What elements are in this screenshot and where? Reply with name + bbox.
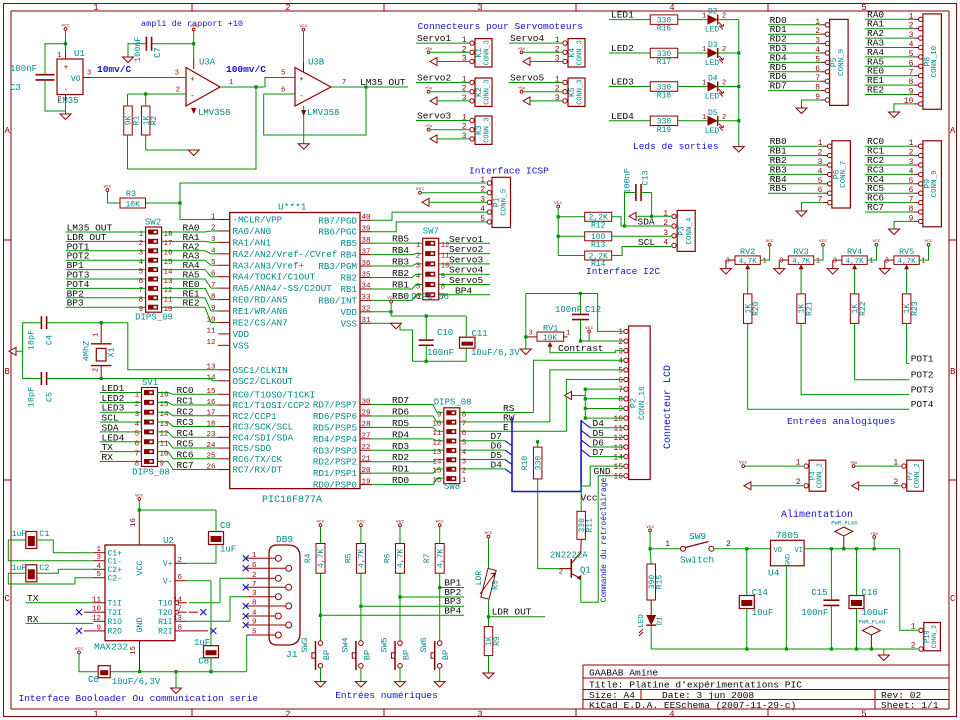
svg-text:Connecteurs pour Servomoteurs: Connecteurs pour Servomoteurs	[418, 21, 583, 32]
wire vcc to C9	[139, 509, 216, 511]
wire VDD pin32 to C10/C11	[372, 311, 392, 313]
svg-text:1: 1	[909, 12, 914, 21]
svg-text:8: 8	[211, 293, 216, 301]
wire MCLR node down to chip pin1	[179, 203, 181, 220]
wire vcc to R3	[108, 191, 121, 203]
switch SW6 push button	[419, 637, 451, 670]
ground arrow (P3 pin1)	[629, 212, 636, 220]
svg-text:B: B	[4, 367, 10, 377]
svg-text:CONN_2: CONN_2	[914, 463, 922, 488]
wire R2 bottom to ground	[146, 135, 194, 150]
net labels RB0-RB5 and wires to P6	[768, 136, 823, 194]
svg-text:10K: 10K	[125, 201, 140, 210]
svg-text:34: 34	[361, 283, 371, 291]
svg-text:4,7K: 4,7K	[739, 258, 758, 266]
svg-text:C2: C2	[39, 563, 49, 573]
svg-text:13: 13	[613, 444, 623, 453]
wires P2 pins 7-10 grounded	[572, 388, 624, 420]
resistor R5 4,7K	[356, 544, 365, 574]
svg-text:5: 5	[861, 710, 866, 720]
svg-text:BP: BP	[362, 650, 372, 660]
svg-text:32: 32	[361, 306, 370, 314]
svg-text:-: -	[190, 93, 195, 101]
svg-text:C3: C3	[10, 83, 21, 93]
wire OSC1 net: C4 - X1 top - chip pin13	[23, 323, 42, 379]
wires P2 pins 4,5,6 from RS RW E	[533, 360, 623, 412]
svg-text:SCL: SCL	[638, 237, 655, 248]
power flag PWR_FLAG (top)	[831, 520, 857, 549]
svg-text:9: 9	[815, 93, 820, 102]
svg-text:R1: R1	[133, 116, 142, 126]
wire U3B output to LM35 OUT	[331, 86, 408, 88]
switch SW5 push button	[380, 637, 412, 670]
svg-text:30: 30	[361, 398, 371, 406]
photoresistor R8 LDR	[475, 568, 501, 599]
svg-text:LDR OUT: LDR OUT	[492, 607, 532, 618]
svg-text:POT2: POT2	[911, 370, 934, 381]
svg-text:RB5: RB5	[770, 183, 787, 194]
wire R17 to diode D3	[678, 52, 708, 54]
svg-text:23: 23	[206, 431, 216, 439]
svg-text:C7: C7	[153, 47, 163, 58]
svg-text:4: 4	[909, 41, 914, 50]
svg-text:C4: C4	[45, 335, 55, 345]
ground arrow to K4 pin3	[523, 58, 530, 66]
net labels BP1-BP4 and wires	[321, 578, 465, 617]
svg-text:9: 9	[211, 305, 216, 313]
wire P6 pin7 to ground	[802, 203, 823, 211]
bottom rail (power)	[651, 648, 884, 650]
svg-text:17: 17	[206, 410, 215, 418]
svg-text:2: 2	[285, 3, 290, 13]
dip switch SW8 DIPS_08 (mirrored)	[432, 398, 471, 493]
ground arrow to K5 pin3	[523, 97, 530, 105]
svg-text:1: 1	[869, 258, 873, 266]
svg-text:C11: C11	[472, 329, 488, 339]
svg-text:LDR: LDR	[475, 571, 484, 586]
wire P10 pin2 to gnd rail	[884, 648, 918, 650]
svg-text:DIPS_09: DIPS_09	[135, 313, 173, 323]
svg-text:RC0/T1OSO/T1CKI: RC0/T1OSO/T1CKI	[233, 389, 316, 400]
connector P4 CONN_2	[796, 459, 826, 492]
chip left pins 13,14 OSC	[206, 364, 293, 387]
svg-text:RA2/AN2/Vref-/CVref: RA2/AN2/Vref-/CVref	[233, 249, 338, 260]
svg-text:6: 6	[815, 65, 820, 74]
ic U2 MAX232 body	[94, 536, 175, 653]
switch SW3 push button	[300, 637, 332, 670]
svg-text:100nF: 100nF	[10, 64, 37, 74]
svg-text:5: 5	[909, 50, 914, 59]
svg-text:R10: R10	[521, 456, 530, 471]
ground arrow (P7 pin2)	[852, 482, 859, 490]
svg-text:RD4/PSP4: RD4/PSP4	[313, 434, 358, 445]
svg-text:Interface Booloader Ou communi: Interface Booloader Ou communication ser…	[19, 693, 259, 704]
svg-text:PWR_FLAG: PWR_FLAG	[831, 520, 857, 527]
capacitor C5	[27, 372, 55, 407]
svg-text:7: 7	[818, 196, 823, 205]
svg-text:+5v: +5v	[870, 533, 878, 537]
wire U1 out to U3A +	[91, 77, 186, 79]
wire Q1 emitter down	[580, 579, 582, 603]
svg-text:R13: R13	[591, 241, 606, 250]
wire R7 to SW6 and BP net	[439, 573, 441, 641]
svg-text:1: 1	[566, 330, 570, 338]
svg-text:RB0/INT: RB0/INT	[318, 295, 357, 306]
svg-text:2: 2	[555, 85, 560, 94]
wire diode D5 to common bus	[718, 120, 739, 122]
resistor R14 2,2K	[585, 251, 612, 260]
svg-text:RB3/PGM: RB3/PGM	[318, 261, 357, 272]
svg-text:40: 40	[361, 214, 371, 222]
svg-text:RC2/CCP1: RC2/CCP1	[233, 411, 278, 422]
svg-text:3: 3	[663, 229, 668, 238]
svg-text:RD3/PSP3: RD3/PSP3	[313, 445, 357, 456]
svg-text:31: 31	[361, 317, 371, 325]
svg-text:19: 19	[361, 478, 370, 486]
svg-text:1: 1	[702, 46, 706, 54]
svg-text:4: 4	[480, 205, 485, 214]
svg-text:1: 1	[618, 328, 623, 337]
svg-text:CONN_3: CONN_3	[577, 40, 585, 65]
svg-text:RB6/PGC: RB6/PGC	[318, 227, 357, 238]
resistor R2	[141, 106, 150, 135]
svg-text:VO: VO	[71, 75, 81, 84]
svg-text:21: 21	[361, 456, 371, 464]
svg-text:RD1/PSP1: RD1/PSP1	[313, 468, 358, 479]
wires SW8 right rows 4-7 to D7-D4 labels (blue bus entries)	[460, 431, 512, 474]
ground (P5)	[796, 108, 807, 114]
capacitor C6 (polarized)	[88, 666, 161, 687]
svg-text:3: 3	[555, 55, 560, 64]
LED diode D3	[705, 41, 724, 68]
svg-text:+5v: +5v	[425, 126, 433, 130]
wire LED common bus down to ground	[738, 20, 740, 147]
svg-text:SW3: SW3	[300, 637, 310, 652]
wire R9 to ground	[488, 656, 490, 673]
chip left pins 15-26 RC port	[206, 388, 315, 475]
svg-text:3: 3	[462, 94, 467, 103]
connector P10 CONN_2	[911, 623, 941, 652]
ground (P6)	[796, 211, 807, 217]
svg-text:1: 1	[462, 114, 467, 123]
svg-text:POT4: POT4	[911, 399, 934, 410]
svg-text:3: 3	[252, 590, 257, 598]
svg-text:RC7/RX/DT: RC7/RX/DT	[233, 465, 283, 476]
svg-text:5: 5	[815, 55, 820, 64]
chip left pins 1-12	[206, 213, 337, 351]
wire DB9 pin5 to gnd rail	[246, 635, 248, 672]
svg-text:RD7: RD7	[770, 81, 787, 92]
svg-text:Connecteur LCD: Connecteur LCD	[663, 365, 674, 449]
svg-text:CONN_9: CONN_9	[931, 170, 939, 197]
svg-text:25: 25	[206, 453, 216, 461]
svg-text:CONN_3: CONN_3	[484, 118, 492, 143]
svg-text:R16: R16	[657, 25, 672, 34]
svg-text:2: 2	[285, 710, 290, 720]
capacitor C4	[27, 316, 55, 350]
wires C10/C11 bottoms to gnd	[425, 345, 427, 361]
svg-text:LED: LED	[638, 614, 646, 628]
svg-text:+5v: +5v	[850, 462, 858, 466]
svg-text:1: 1	[815, 18, 820, 27]
svg-text:100nF: 100nF	[133, 36, 143, 62]
wire OSC2 net: C5 - X1 bottom - chip pin14	[47, 378, 102, 380]
svg-text:C15: C15	[811, 588, 827, 598]
svg-text:VI: VI	[795, 547, 803, 555]
svg-text:1: 1	[663, 209, 668, 218]
ground (R2)	[188, 150, 199, 156]
capacitor C15	[801, 588, 839, 618]
svg-text:330: 330	[534, 456, 543, 471]
ground (P9)	[889, 229, 900, 235]
svg-text:4,7K: 4,7K	[846, 258, 865, 266]
ground (SW4)	[355, 682, 366, 688]
wire C13 left to SDA node	[625, 193, 636, 227]
wire R13 to P3 pin3	[612, 235, 671, 237]
svg-text:CONN_7: CONN_7	[840, 161, 848, 188]
svg-text:RV5: RV5	[899, 247, 914, 257]
no-connect X T2O	[200, 609, 206, 615]
svg-text:100mv/C: 100mv/C	[226, 64, 266, 75]
svg-text:10mv/C: 10mv/C	[97, 64, 132, 75]
svg-text:2: 2	[462, 123, 467, 132]
svg-text:P2: P2	[629, 398, 639, 408]
svg-text:RD2/PSP2: RD2/PSP2	[313, 457, 357, 468]
svg-text:37: 37	[361, 248, 370, 256]
net labels and wires into SV1 left side	[100, 383, 142, 463]
no-connect X marks on DB9 unused pins	[243, 555, 249, 561]
ground (power rail)	[883, 649, 885, 655]
wire RV3 wiper to R21	[800, 269, 802, 294]
svg-text:3: 3	[96, 554, 101, 562]
svg-text:R2: R2	[150, 116, 159, 126]
resistor R20 1K	[743, 294, 752, 324]
svg-text:RE0/RD/AN5: RE0/RD/AN5	[233, 295, 288, 306]
svg-text:2: 2	[211, 225, 216, 233]
svg-text:Servo2: Servo2	[417, 73, 452, 84]
svg-text:VO: VO	[774, 547, 782, 555]
wire C12 top	[580, 294, 582, 315]
svg-text:10: 10	[904, 97, 914, 106]
svg-text:D4: D4	[708, 75, 718, 84]
transistor Q1 2N2222A	[550, 551, 591, 581]
svg-text:C9: C9	[220, 521, 231, 531]
svg-text:R5: R5	[344, 553, 353, 563]
svg-text:MAX232: MAX232	[94, 642, 129, 653]
capacitor C16 (polarized)	[849, 588, 889, 618]
svg-text:18pF: 18pF	[27, 330, 37, 350]
svg-text:RB1: RB1	[340, 284, 357, 295]
wire R8 to LDR OUT node	[488, 599, 490, 627]
wires rail to R12 R13 R14	[558, 216, 585, 218]
svg-text:4: 4	[669, 3, 674, 13]
svg-text:CONN_5: CONN_5	[501, 188, 509, 216]
svg-text:2: 2	[726, 540, 731, 549]
svg-text:28: 28	[361, 421, 370, 429]
svg-text:8: 8	[618, 396, 623, 405]
svg-text:1uF: 1uF	[12, 564, 27, 573]
ground (R9)	[483, 673, 494, 679]
potentiometer RV2 4,7K	[726, 247, 767, 269]
svg-text:7: 7	[909, 196, 914, 205]
svg-text:8: 8	[909, 78, 914, 87]
wire VSS pin31 to ground	[372, 322, 397, 324]
svg-text:+5v: +5v	[518, 88, 526, 92]
resistor R9 1K	[484, 627, 493, 656]
ground (U1)	[65, 111, 67, 114]
svg-text:7: 7	[909, 69, 914, 78]
wires SV2 right pins to chip RA/RE pins with labels	[162, 223, 219, 323]
svg-text:PIC16F877A: PIC16F877A	[262, 495, 322, 506]
svg-text:33: 33	[361, 294, 371, 302]
connector K2 CONN_3 (Servo2)	[462, 76, 492, 107]
svg-text:3: 3	[211, 236, 216, 244]
svg-text:LED: LED	[705, 59, 720, 68]
svg-text:TX: TX	[27, 593, 39, 604]
wires chip RB5-RB0 to SW7 with labels	[372, 234, 423, 302]
svg-text:2: 2	[618, 338, 623, 347]
svg-text:8: 8	[252, 600, 257, 608]
svg-text:Servo5: Servo5	[510, 73, 545, 84]
svg-text:R23: R23	[911, 301, 920, 316]
LED diode D5	[705, 109, 724, 136]
svg-text:R18: R18	[657, 91, 672, 100]
wire R14 to SCL to P3 pin4	[612, 247, 671, 256]
svg-text:6: 6	[211, 271, 216, 279]
svg-text:VDD: VDD	[340, 307, 357, 318]
op-amp U3A LMV358	[186, 58, 230, 119]
svg-text:RV2: RV2	[740, 247, 755, 257]
svg-text:1uF: 1uF	[220, 545, 236, 555]
wire SW9 to 7805 input	[714, 548, 771, 550]
svg-text:16: 16	[206, 399, 216, 407]
svg-text:U3B: U3B	[308, 58, 325, 68]
svg-text:DIPS_08: DIPS_08	[434, 398, 472, 408]
LED diode D2	[705, 8, 724, 35]
svg-text:10uF: 10uF	[752, 608, 774, 618]
svg-text:1: 1	[816, 258, 820, 266]
title block	[583, 665, 949, 711]
svg-text:X1: X1	[107, 347, 117, 357]
svg-text:OSC2/CLKOUT: OSC2/CLKOUT	[233, 376, 294, 387]
blue bus D4-D7 to LCD	[512, 418, 581, 492]
svg-text:+: +	[299, 76, 304, 84]
switch SW9	[650, 531, 731, 566]
svg-text:1: 1	[462, 76, 467, 85]
svg-text:4MhZ: 4MhZ	[82, 341, 92, 361]
wire U3A - input to R1/R2 tops	[128, 93, 187, 95]
svg-text:R7: R7	[423, 553, 432, 563]
svg-text:1: 1	[909, 139, 914, 148]
wire R12 to SDA to P3 pin2	[612, 217, 671, 226]
capacitor C7	[133, 36, 163, 62]
svg-text:GND: GND	[135, 617, 145, 632]
wire R6 to SW5 and BP net	[399, 573, 401, 641]
ground arrow to K3 pin3	[430, 135, 437, 143]
svg-text:7805: 7805	[776, 530, 799, 541]
resistor R18 330	[650, 82, 678, 92]
capacitor C11 (polarized)	[459, 329, 520, 358]
wires P2 pins 11-14 D4-D7 labels	[581, 418, 624, 458]
svg-text:RV4: RV4	[847, 247, 862, 257]
svg-text:27: 27	[361, 433, 370, 441]
svg-text:CONN_3: CONN_3	[484, 80, 492, 105]
svg-text:R11: R11	[586, 518, 595, 533]
svg-text:OSC1/CLKIN: OSC1/CLKIN	[233, 365, 288, 376]
svg-text:8: 8	[909, 205, 914, 214]
wire U3A output	[220, 86, 265, 88]
svg-text:RA1/AN1: RA1/AN1	[233, 237, 272, 248]
svg-text:5: 5	[211, 259, 216, 267]
svg-text:10: 10	[613, 415, 623, 424]
ground (RV2)	[725, 260, 727, 269]
svg-text:CONN_10: CONN_10	[931, 45, 939, 77]
wires chip RD7-RD0 to SW8 with labels	[372, 395, 444, 486]
svg-text:3: 3	[618, 347, 623, 356]
svg-text:RC1/T1OSI/CCP2: RC1/T1OSI/CCP2	[233, 400, 310, 411]
wire V- to C8	[187, 580, 211, 582]
svg-text:Servo3: Servo3	[417, 111, 452, 122]
ground (P8)	[889, 112, 900, 118]
svg-text:14: 14	[613, 453, 623, 462]
svg-text:Interface ICSP: Interface ICSP	[469, 166, 549, 177]
svg-text:CONN_9: CONN_9	[838, 49, 846, 76]
svg-text:RE2/CS/AN7: RE2/CS/AN7	[233, 317, 288, 328]
svg-text:RB7/PGD: RB7/PGD	[318, 215, 357, 226]
svg-text:1: 1	[555, 36, 560, 45]
svg-text:LED: LED	[705, 93, 720, 102]
ground (SW5)	[395, 682, 406, 688]
svg-text:1: 1	[462, 477, 467, 485]
no-connect X R2I	[210, 628, 216, 634]
ground (SW6)	[434, 682, 445, 688]
svg-text:V+: V+	[163, 560, 173, 569]
bottom gnd rail (MAX232)	[79, 671, 98, 673]
svg-text:Sheet: 1/1: Sheet: 1/1	[881, 700, 939, 711]
wire SW5 to ground	[399, 668, 401, 682]
svg-text:LED4: LED4	[611, 111, 634, 122]
resistor R12 2,2K	[585, 212, 612, 221]
svg-text:D3: D3	[708, 41, 718, 50]
svg-text:D5: D5	[708, 109, 718, 118]
wire C9 to V+ pin2	[187, 545, 216, 564]
svg-text:R9: R9	[493, 636, 502, 646]
wires SW7 right to servo net labels	[439, 234, 490, 296]
svg-text:39: 39	[361, 226, 370, 234]
ground arrow to K2 pin3	[430, 97, 437, 105]
capacitor C2 (polarized)	[12, 563, 50, 582]
ground arrow (crystal caps)	[9, 347, 16, 355]
svg-text:SW5: SW5	[380, 637, 390, 652]
svg-text:6: 6	[909, 186, 914, 195]
svg-text:10uF/6,3V: 10uF/6,3V	[112, 677, 161, 687]
svg-text:3: 3	[462, 55, 467, 64]
ground (RV3)	[778, 260, 780, 269]
svg-text:Title: Platine d'expérimentati: Title: Platine d'expérimentations PIC	[589, 680, 802, 691]
connector P3 CONN_4	[663, 209, 695, 251]
potentiometer RV4 4,7K	[833, 247, 874, 269]
MAX232 pin15 GND stub to rail	[139, 641, 141, 672]
svg-text:R6: R6	[384, 553, 393, 563]
svg-text:7: 7	[815, 74, 820, 83]
wire to U3B + input	[265, 78, 295, 88]
ground (VSS)	[391, 323, 402, 329]
ground arrow (P4 pin2)	[744, 482, 751, 490]
ground (RV4)	[832, 260, 834, 269]
svg-text:18pF: 18pF	[27, 387, 37, 407]
potentiometer RV3 4,7K	[779, 247, 820, 269]
svg-text:Entrées analogiques: Entrées analogiques	[787, 416, 895, 427]
